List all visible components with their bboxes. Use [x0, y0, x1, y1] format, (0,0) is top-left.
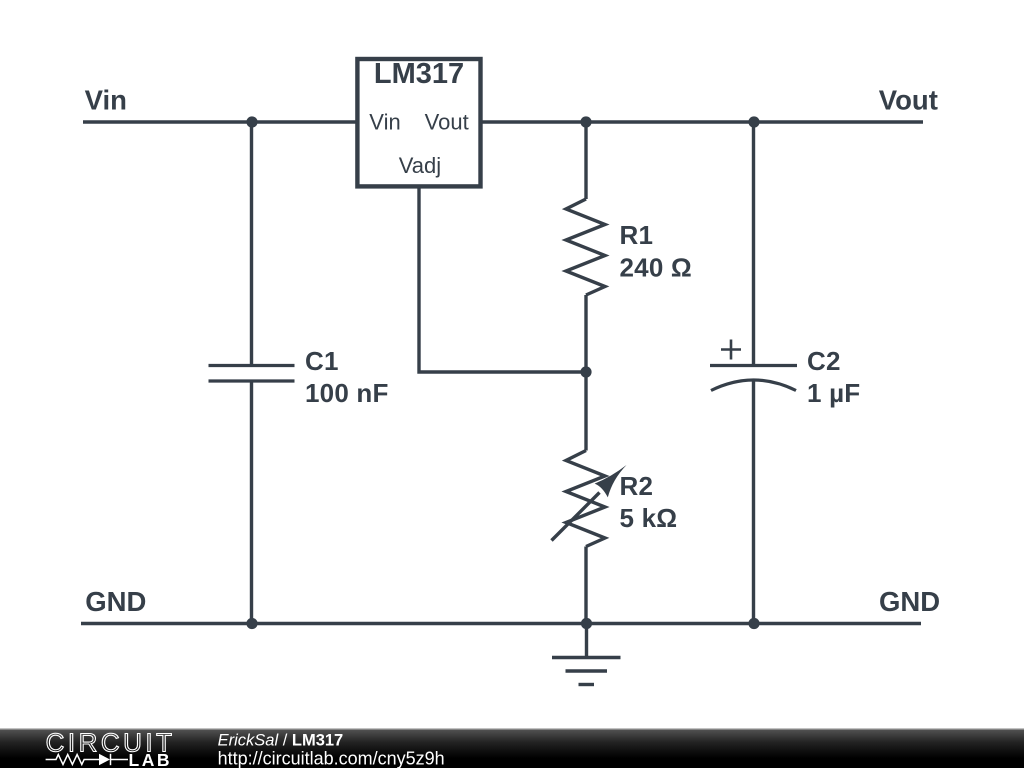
wire C1 bottom lead — [250, 383, 253, 624]
capacitor C1 — [209, 366, 295, 382]
node Vadj junction — [580, 366, 591, 377]
node ground — [581, 618, 592, 629]
logo diode — [99, 754, 110, 765]
svg-text:C2: C2 — [807, 346, 841, 376]
wire ground stub — [585, 624, 588, 658]
footer bar — [0, 729, 1024, 768]
wire C1 top lead — [250, 122, 253, 364]
R2 wiper arrow — [552, 465, 627, 541]
wire R1 top lead — [584, 122, 587, 199]
svg-text:LAB: LAB — [129, 750, 172, 768]
wire top rail Vin-Vout — [83, 120, 923, 123]
svg-text:5 kΩ: 5 kΩ — [620, 503, 678, 533]
svg-text:1 µF: 1 µF — [807, 378, 860, 408]
wire C2 bottom lead — [752, 380, 755, 624]
resistor R1 — [566, 199, 605, 295]
svg-text:Vin: Vin — [369, 110, 400, 135]
node C2 top — [748, 116, 759, 127]
svg-text:C1: C1 — [305, 346, 339, 376]
logo resistor squiggle — [46, 755, 99, 765]
svg-text:240 Ω: 240 Ω — [620, 252, 692, 282]
svg-text:100 nF: 100 nF — [305, 378, 389, 408]
node C2 bottom — [748, 618, 759, 629]
C2 plus sign — [721, 340, 741, 360]
svg-text:LM317: LM317 — [374, 58, 464, 90]
ground — [552, 658, 621, 685]
svg-text:Vout: Vout — [879, 84, 938, 115]
op-amp U1 LM317 box — [357, 59, 480, 186]
node junction dots — [246, 116, 759, 629]
wire R2 bottom lead — [584, 547, 587, 624]
node R1 top — [580, 116, 591, 127]
svg-text:GND: GND — [879, 586, 940, 617]
wire R1 bottom lead — [584, 295, 587, 372]
svg-text:GND: GND — [85, 586, 146, 617]
resistor R2 (rheostat) — [566, 451, 605, 547]
wire R2 top lead — [584, 372, 587, 451]
wire C2 top lead — [752, 122, 755, 364]
svg-text:http://circuitlab.com/cny5z9h: http://circuitlab.com/cny5z9h — [218, 748, 445, 768]
svg-text:Vadj: Vadj — [399, 153, 441, 178]
wire Vadj to node — [419, 186, 586, 372]
svg-text:R1: R1 — [620, 220, 654, 250]
svg-text:ErickSal / LM317: ErickSal / LM317 — [218, 732, 344, 750]
svg-text:Vin: Vin — [85, 84, 127, 115]
node C1 bottom — [246, 618, 257, 629]
svg-text:R2: R2 — [620, 471, 654, 501]
capacitor C2 (polarized) — [710, 366, 797, 391]
svg-text:Vout: Vout — [425, 110, 469, 135]
node C1 top — [246, 116, 257, 127]
wire bottom rail GND — [81, 622, 921, 625]
